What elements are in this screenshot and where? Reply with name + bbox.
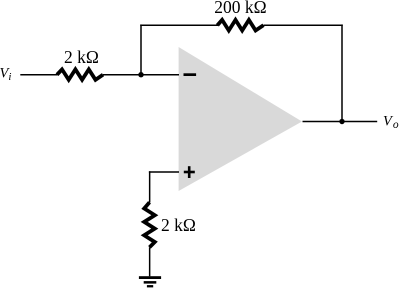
junction node B (output) xyxy=(339,119,344,124)
wire non-inverting input down to R3 xyxy=(149,171,151,202)
svg-text:Vo: Vo xyxy=(383,113,399,131)
wire feedback down to output node B xyxy=(341,24,343,121)
svg-text:200 kΩ: 200 kΩ xyxy=(214,0,266,17)
wire feedback top-left to R2 xyxy=(140,24,218,26)
wire from R3 to ground xyxy=(149,247,151,276)
op-amp U1 (triangle body) xyxy=(179,47,302,191)
wire from R2 to right drop xyxy=(264,24,343,26)
op-amp non-inverting input symbol (plus) xyxy=(184,166,195,178)
junction node A (inverting input) xyxy=(138,72,143,77)
svg-text:2 kΩ: 2 kΩ xyxy=(64,47,99,67)
wire non-inverting input horizontal xyxy=(149,171,179,173)
resistor R3 2 kOhm (to ground) xyxy=(144,202,155,247)
wire from R1 to inverting input node A xyxy=(103,74,179,76)
svg-text:Vi: Vi xyxy=(0,65,11,83)
wire node A up to feedback xyxy=(140,24,142,74)
ground xyxy=(139,276,161,287)
op-amp inverting input symbol (minus) xyxy=(184,73,197,76)
resistor R2 200 kOhm (feedback) xyxy=(217,20,263,31)
resistor R1 2 kOhm (input) xyxy=(57,69,103,79)
svg-text:2 kΩ: 2 kΩ xyxy=(161,215,196,235)
wire op-amp output to Vo xyxy=(303,121,378,123)
wire from Vi to resistor R1 xyxy=(20,74,57,76)
